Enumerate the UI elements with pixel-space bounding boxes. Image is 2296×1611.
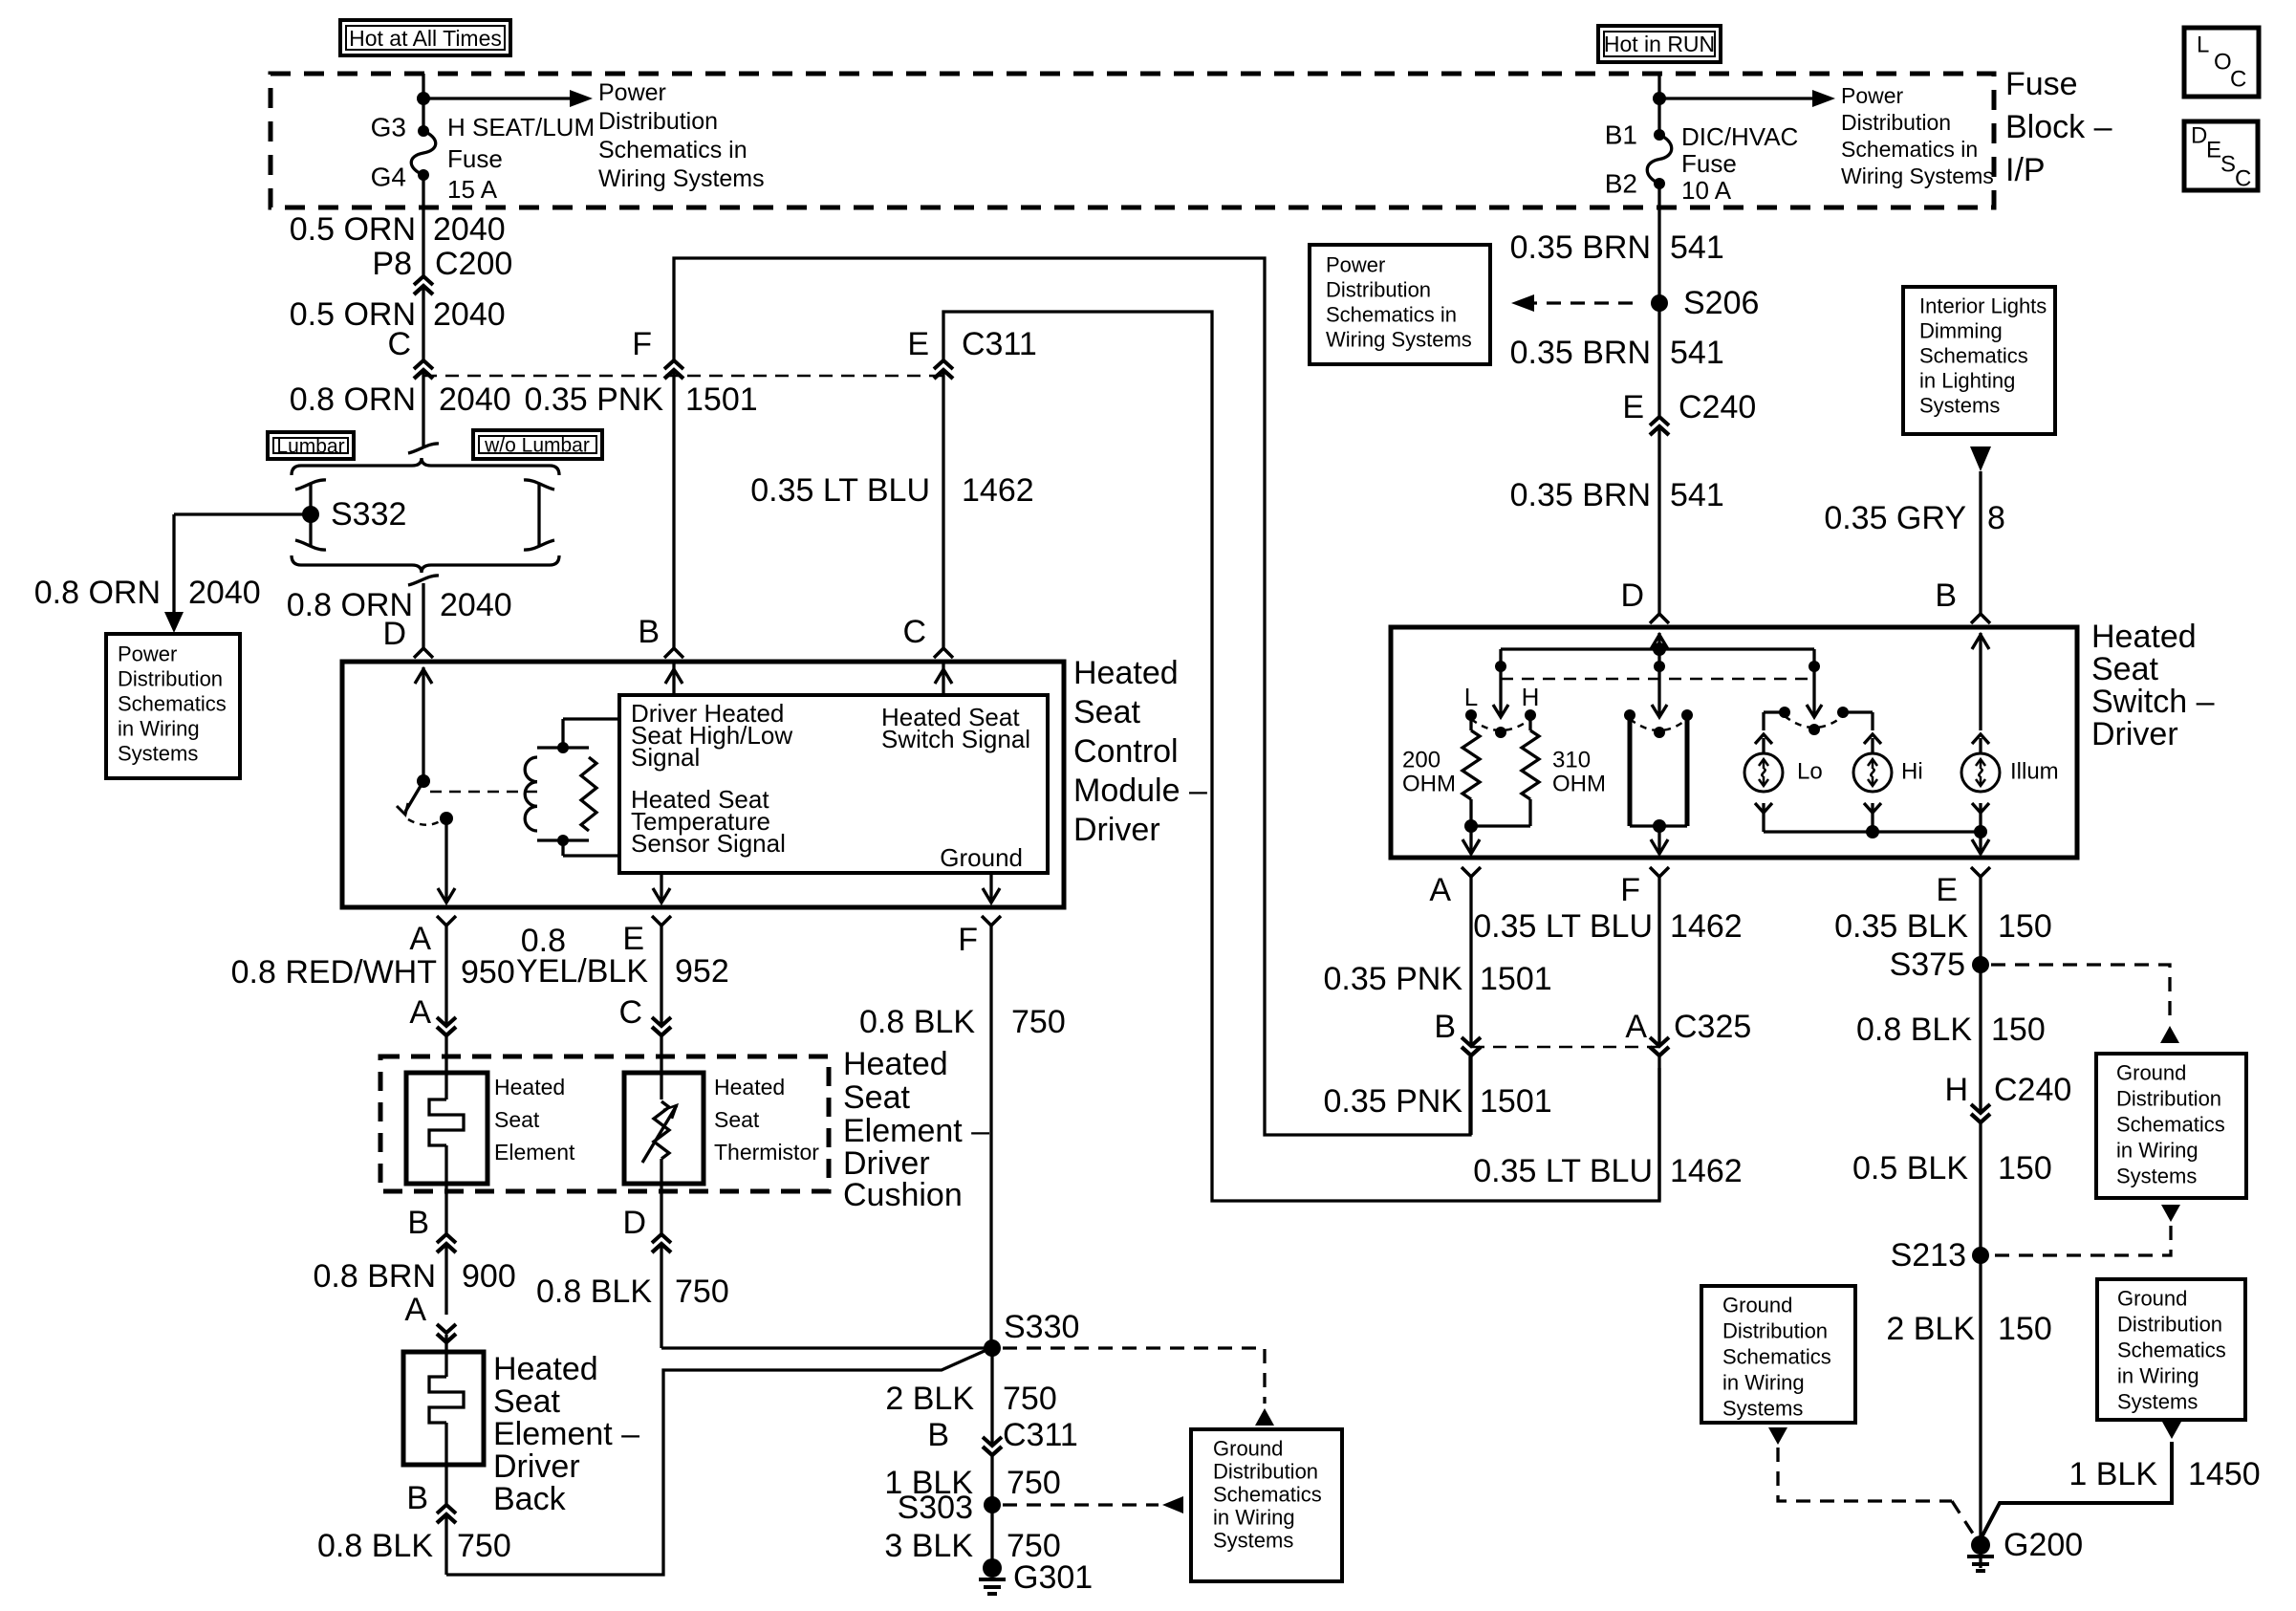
svg-text:0.35 PNK: 0.35 PNK [524,381,663,418]
svg-text:1 BLK: 1 BLK [2069,1456,2157,1492]
svg-text:Distribution: Distribution [1841,110,1951,135]
svg-text:0.35 PNK: 0.35 PNK [1323,1083,1462,1120]
svg-text:Wiring Systems: Wiring Systems [598,165,765,192]
svg-text:2040: 2040 [188,575,261,611]
svg-text:Heated: Heated [494,1075,565,1099]
svg-text:Wiring Systems: Wiring Systems [1326,328,1472,352]
svg-text:3 BLK: 3 BLK [884,1528,973,1564]
svg-text:Signal: Signal [631,743,700,772]
svg-text:B: B [406,1480,428,1516]
svg-text:Seat: Seat [2091,651,2158,687]
svg-text:150: 150 [1998,1311,2052,1347]
svg-text:Systems: Systems [1919,394,2000,418]
svg-text:900: 900 [462,1258,516,1295]
svg-text:Seat: Seat [843,1079,910,1116]
svg-text:in Wiring: in Wiring [118,717,200,741]
svg-text:952: 952 [675,953,729,990]
svg-text:0.8 BLK: 0.8 BLK [536,1274,652,1310]
svg-text:950: 950 [461,954,515,991]
svg-text:A: A [409,921,431,957]
svg-text:B1: B1 [1605,120,1637,150]
svg-text:10 A: 10 A [1681,176,1732,205]
svg-text:C311: C311 [962,326,1037,362]
svg-text:Distribution: Distribution [598,108,718,135]
svg-text:8: 8 [1987,500,2005,536]
svg-text:Switch Signal: Switch Signal [881,725,1030,753]
svg-text:Ground: Ground [2116,1061,2186,1085]
svg-text:Driver: Driver [2091,716,2178,752]
svg-text:Ground: Ground [940,843,1023,872]
svg-text:750: 750 [1007,1465,1061,1501]
svg-text:750: 750 [675,1274,729,1310]
svg-text:1462: 1462 [1670,908,1743,945]
svg-text:OHM: OHM [1402,772,1456,797]
svg-text:Seat: Seat [714,1107,760,1132]
svg-text:0.35 LT BLU: 0.35 LT BLU [750,472,930,509]
svg-text:0.8 ORN: 0.8 ORN [34,575,161,611]
svg-text:Heated: Heated [2091,619,2197,655]
svg-text:Hi: Hi [1901,759,1923,785]
svg-text:Systems: Systems [1722,1397,1803,1421]
svg-text:I/P: I/P [2005,152,2046,188]
svg-text:C325: C325 [1674,1009,1751,1045]
svg-text:541: 541 [1670,229,1724,266]
svg-text:Dimming: Dimming [1919,319,2003,343]
svg-text:Systems: Systems [2117,1390,2198,1414]
svg-text:Element: Element [494,1140,575,1165]
svg-text:G200: G200 [2004,1527,2083,1563]
svg-text:E: E [2206,138,2221,163]
svg-text:C240: C240 [1994,1072,2071,1108]
svg-text:Distribution: Distribution [2117,1313,2222,1337]
svg-text:1462: 1462 [962,472,1034,509]
svg-text:2040: 2040 [433,211,506,248]
svg-text:C: C [387,326,411,362]
svg-text:S206: S206 [1683,285,1759,321]
svg-text:Schematics: Schematics [2117,1339,2226,1362]
svg-text:P8: P8 [372,246,412,282]
svg-text:F: F [1620,872,1640,908]
svg-text:Distribution: Distribution [1722,1319,1828,1343]
svg-text:B: B [927,1417,949,1453]
svg-text:G301: G301 [1013,1559,1093,1596]
svg-text:Systems: Systems [2116,1165,2197,1188]
svg-text:Seat: Seat [1073,694,1140,730]
svg-text:Schematics: Schematics [118,692,227,716]
svg-text:Schematics in: Schematics in [1326,303,1457,327]
svg-text:1450: 1450 [2188,1456,2261,1492]
svg-text:Wiring Systems: Wiring Systems [1841,163,1994,188]
svg-text:A: A [1429,872,1451,908]
svg-text:w/o Lumbar: w/o Lumbar [484,435,590,457]
svg-text:541: 541 [1670,477,1724,513]
svg-text:Power: Power [598,79,666,106]
svg-text:Driver: Driver [493,1448,580,1485]
svg-text:2 BLK: 2 BLK [885,1381,974,1417]
svg-text:L: L [2197,33,2209,58]
svg-text:G4: G4 [371,163,406,192]
svg-text:in Lighting: in Lighting [1919,369,2015,393]
svg-text:0.35 PNK: 0.35 PNK [1323,961,1462,997]
svg-text:Systems: Systems [118,742,198,766]
svg-text:Module –: Module – [1073,773,1207,809]
svg-text:2040: 2040 [439,381,511,418]
svg-text:Seat: Seat [494,1107,540,1132]
svg-text:Power: Power [118,642,177,666]
svg-text:H: H [1944,1072,1968,1108]
svg-text:H: H [1522,683,1540,711]
svg-text:Power: Power [1326,253,1385,277]
svg-text:0.35 LT BLU: 0.35 LT BLU [1473,1153,1653,1189]
svg-text:S213: S213 [1891,1237,1966,1274]
svg-text:C: C [902,614,926,650]
svg-text:in Wiring: in Wiring [1722,1371,1805,1395]
svg-text:S332: S332 [331,496,406,533]
svg-text:DIC/HVAC: DIC/HVAC [1681,122,1798,151]
svg-text:1501: 1501 [685,381,758,418]
svg-text:A: A [404,1292,426,1328]
svg-text:Ground: Ground [1213,1437,1283,1461]
svg-text:D: D [2191,123,2207,149]
svg-text:Schematics in: Schematics in [598,137,747,163]
svg-text:B: B [1434,1009,1456,1045]
svg-text:Distribution: Distribution [1326,278,1431,302]
svg-text:Heated: Heated [1073,655,1179,691]
svg-text:in Wiring: in Wiring [1213,1506,1295,1530]
svg-text:B: B [638,614,660,650]
svg-text:D: D [622,1205,646,1241]
svg-text:D: D [1620,577,1644,614]
svg-text:0.5 ORN: 0.5 ORN [290,211,416,248]
svg-text:0.8 BLK: 0.8 BLK [859,1004,975,1040]
svg-text:B2: B2 [1605,169,1637,199]
svg-text:S330: S330 [1004,1309,1079,1345]
svg-text:E: E [1622,389,1644,425]
svg-text:0.8 BLK: 0.8 BLK [1856,1012,1972,1048]
svg-text:Systems: Systems [1213,1529,1293,1553]
svg-text:Schematics: Schematics [1919,344,2028,368]
svg-text:Lumbar: Lumbar [276,436,344,458]
svg-text:750: 750 [1011,1004,1066,1040]
svg-text:541: 541 [1670,335,1724,371]
svg-text:S: S [2220,152,2236,178]
svg-text:YEL/BLK: YEL/BLK [516,953,648,990]
svg-text:Fuse: Fuse [2005,66,2078,102]
svg-text:Schematics: Schematics [1213,1483,1322,1507]
svg-text:Schematics in: Schematics in [1841,137,1978,162]
svg-text:Hot in RUN: Hot in RUN [1604,32,1715,56]
svg-text:150: 150 [1998,908,2052,945]
svg-text:0.8 RED/WHT: 0.8 RED/WHT [231,954,437,991]
svg-text:Lo: Lo [1797,759,1823,785]
svg-text:Distribution: Distribution [1213,1460,1318,1484]
svg-text:0.35 BLK: 0.35 BLK [1834,908,1968,945]
svg-text:A: A [1625,1009,1647,1045]
svg-text:E: E [907,326,929,362]
svg-text:750: 750 [457,1528,511,1564]
svg-text:0.8 BRN: 0.8 BRN [314,1258,437,1295]
svg-text:A: A [409,994,431,1031]
svg-text:Element –: Element – [843,1113,989,1149]
svg-text:O: O [2214,50,2232,76]
svg-text:310: 310 [1552,748,1591,773]
svg-text:1501: 1501 [1480,1083,1552,1120]
svg-text:C240: C240 [1679,389,1756,425]
svg-text:Seat: Seat [493,1383,560,1420]
svg-text:Distribution: Distribution [2116,1087,2221,1111]
svg-text:0.35 BRN: 0.35 BRN [1510,335,1651,371]
svg-text:0.8 BLK: 0.8 BLK [317,1528,433,1564]
svg-text:Block –: Block – [2005,109,2112,145]
svg-text:Distribution: Distribution [118,667,223,691]
svg-text:S303: S303 [898,1490,973,1526]
svg-text:H SEAT/LUM: H SEAT/LUM [447,113,595,142]
svg-text:B: B [407,1205,429,1241]
svg-text:2 BLK: 2 BLK [1886,1311,1975,1347]
svg-text:Back: Back [493,1481,567,1517]
svg-text:E: E [1936,872,1958,908]
svg-text:Hot at All Times: Hot at All Times [349,26,502,51]
svg-text:G3: G3 [371,113,406,142]
svg-text:200: 200 [1402,748,1440,773]
svg-text:Interior Lights: Interior Lights [1919,294,2047,318]
svg-text:2040: 2040 [433,296,506,333]
svg-text:Driver: Driver [1073,812,1160,848]
svg-text:0.35 BRN: 0.35 BRN [1510,229,1651,266]
svg-text:Heated: Heated [493,1351,598,1387]
svg-text:Schematics: Schematics [2116,1113,2225,1137]
svg-text:C: C [618,994,642,1031]
svg-text:150: 150 [1991,1012,2046,1048]
svg-text:Heated: Heated [843,1046,948,1082]
svg-text:S375: S375 [1890,947,1965,983]
svg-text:C: C [2230,67,2246,93]
svg-text:C200: C200 [435,246,512,282]
svg-text:F: F [632,326,652,362]
svg-text:750: 750 [1003,1381,1057,1417]
svg-text:Switch –: Switch – [2091,684,2215,720]
svg-text:F: F [958,922,978,958]
svg-text:C311: C311 [1003,1417,1078,1453]
svg-text:0.35 LT BLU: 0.35 LT BLU [1473,908,1653,945]
svg-text:0.35 BRN: 0.35 BRN [1510,477,1651,513]
svg-text:Thermistor: Thermistor [714,1140,819,1165]
svg-text:Control: Control [1073,733,1179,770]
svg-text:Sensor Signal: Sensor Signal [631,829,786,858]
svg-text:OHM: OHM [1552,772,1606,797]
svg-text:Fuse: Fuse [447,144,503,173]
svg-text:Illum: Illum [2010,759,2059,785]
svg-text:Ground: Ground [2117,1287,2187,1311]
svg-text:2040: 2040 [440,587,512,623]
svg-text:L: L [1464,683,1478,711]
svg-text:150: 150 [1998,1150,2052,1186]
svg-text:0.8 ORN: 0.8 ORN [290,381,416,418]
svg-text:Schematics: Schematics [1722,1345,1831,1369]
svg-text:Ground: Ground [1722,1294,1792,1317]
svg-text:Power: Power [1841,83,1904,108]
svg-text:Heated: Heated [714,1075,785,1099]
svg-text:Fuse: Fuse [1681,149,1737,178]
svg-text:B: B [1935,577,1957,614]
svg-text:1462: 1462 [1670,1153,1743,1189]
svg-text:Cushion: Cushion [843,1177,963,1213]
svg-text:0.35 GRY: 0.35 GRY [1824,500,1966,536]
svg-text:C: C [2235,166,2251,192]
svg-text:D: D [382,616,406,652]
svg-text:1501: 1501 [1480,961,1552,997]
svg-text:15 A: 15 A [447,175,498,204]
svg-text:E: E [622,921,644,957]
svg-text:0.5 BLK: 0.5 BLK [1852,1150,1968,1186]
svg-text:in Wiring: in Wiring [2116,1139,2199,1163]
svg-text:in Wiring: in Wiring [2117,1364,2199,1388]
svg-text:Element –: Element – [493,1416,639,1452]
